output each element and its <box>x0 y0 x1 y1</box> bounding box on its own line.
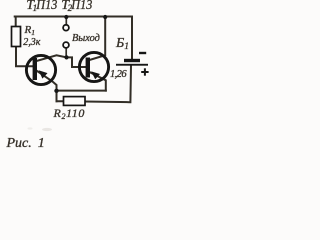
node D dot emitters <box>54 89 58 93</box>
resistor R1 <box>12 27 21 47</box>
transistor Q1 base bar <box>33 58 37 80</box>
node B dot rail T2 collector <box>103 15 107 19</box>
svg-text:П13: П13 <box>35 0 57 13</box>
wire T1 emitter down <box>37 71 57 101</box>
wire output stubs <box>65 17 67 57</box>
wire T2 emitter down <box>90 72 106 90</box>
resistor R2 <box>64 97 86 106</box>
wire bottom rail <box>57 66 132 103</box>
wire top rail <box>15 17 132 60</box>
svg-text:R2110: R2110 <box>53 106 85 121</box>
svg-text:2,3к: 2,3к <box>23 37 41 48</box>
transistor Q1 emitter arrow <box>39 70 48 78</box>
wire T2 collector up to rail <box>90 17 106 61</box>
battery B1 thick plate <box>124 59 140 62</box>
svg-text:1,26: 1,26 <box>110 69 127 80</box>
wire R1 bottom to T1 base <box>16 47 33 67</box>
transistor Q2 base bar <box>86 58 90 78</box>
battery B1 thin plate <box>116 64 148 66</box>
svg-text:Б1: Б1 <box>115 36 129 52</box>
battery plus sign <box>141 71 148 73</box>
svg-text:Выход: Выход <box>72 33 100 44</box>
node A dot on rail (output top) <box>64 15 68 19</box>
wire T1 collector to node A <box>37 55 87 67</box>
transistor Q2 circle <box>79 52 108 81</box>
wire emitter tie line <box>57 90 106 92</box>
node C dot collector wire <box>64 55 68 59</box>
transistor Q1 circle <box>26 55 55 84</box>
svg-text:Рис.1: Рис.1 <box>6 136 45 150</box>
smudge <box>42 128 52 131</box>
svg-text:R1: R1 <box>24 24 35 37</box>
terminal output lower <box>63 42 69 48</box>
svg-text:П13: П13 <box>70 0 92 13</box>
transistor Q2 emitter arrow <box>91 71 100 79</box>
battery minus sign <box>139 52 146 54</box>
terminal output upper <box>63 25 69 31</box>
